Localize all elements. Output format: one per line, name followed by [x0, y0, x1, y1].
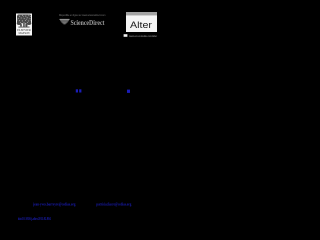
svg-text:ScienceDirect: ScienceDirect [71, 19, 106, 27]
svg-text:Alter: Alter [130, 20, 152, 30]
strip under Alter: white block [124, 34, 128, 37]
blue superscript c [127, 90, 130, 93]
svg-text:MASSON: MASSON [19, 32, 30, 35]
Alter journal logo: white cover box [126, 15, 157, 32]
Alter journal logo: gray band [126, 12, 157, 15]
Elsevier Masson logo box [16, 14, 32, 36]
page background [0, 0, 165, 240]
blue superscript b [79, 89, 81, 92]
svg-text:Disponible en ligne sur www.sc: Disponible en ligne sur www.sciencedirec… [59, 13, 106, 17]
ScienceDirect icon [60, 19, 70, 24]
Elsevier tree engraving [17, 15, 32, 28]
blue superscript a [76, 89, 78, 92]
svg-text:www.em-consulte.com/alter: www.em-consulte.com/alter [129, 34, 157, 38]
svg-text:doi:10.1016/j.alter.2011.02.00: doi:10.1016/j.alter.2011.02.004 [18, 216, 51, 221]
svg-text:patricia.fiacre@cedias.org: patricia.fiacre@cedias.org [96, 201, 131, 206]
svg-text:jean-yves.barreyre@cedias.org: jean-yves.barreyre@cedias.org [32, 201, 76, 206]
